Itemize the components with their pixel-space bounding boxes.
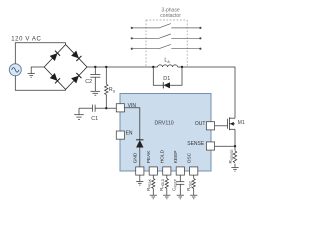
svg-text:VIN: VIN: [128, 103, 137, 109]
IC internal diode: [136, 140, 143, 167]
pin HOLD: [163, 167, 171, 175]
wire ground to C1: [79, 107, 92, 109]
bridge diode lower-right: [71, 73, 81, 83]
wire rail coil to MOSFET drain: [182, 67, 235, 118]
resistor RPEAK: [152, 175, 155, 195]
svg-text:SENSE: SENSE: [187, 141, 205, 147]
contactor pole 3: [131, 44, 202, 49]
resistor ROSC: [192, 175, 195, 195]
svg-text:D1: D1: [163, 76, 170, 82]
svg-text:C2: C2: [85, 79, 92, 85]
IC internal wire VIN to diode: [125, 108, 140, 140]
pin SENSE: [206, 142, 214, 150]
pin VIN: [116, 104, 124, 112]
node RS junction top: [105, 66, 107, 68]
contactor pole 1: [131, 24, 202, 29]
svg-text:EN: EN: [126, 130, 133, 136]
ground (RPEAK): [150, 195, 157, 199]
pin OUT: [206, 122, 214, 130]
resistor RSENSE: [233, 146, 236, 167]
AC source V1: [9, 64, 21, 76]
wire junction to VIN pin: [106, 107, 116, 109]
ground (RHOLD): [163, 195, 170, 199]
pin KEEP: [176, 167, 184, 175]
ground (bridge negative): [28, 74, 35, 78]
svg-text:120 V AC: 120 V AC: [11, 36, 41, 42]
wire main rail bridge to coil: [87, 66, 153, 68]
wire D1 loop right leg: [170, 67, 182, 85]
ground (GND pin): [136, 182, 143, 186]
resistor RS: [105, 67, 108, 108]
capacitor CKEEP: [176, 175, 184, 195]
pin PEAK: [149, 167, 157, 175]
svg-text:HOLD: HOLD: [160, 149, 166, 163]
svg-text:OSC: OSC: [187, 152, 193, 163]
node coil left: [152, 66, 154, 68]
svg-text:contactor: contactor: [160, 13, 181, 19]
wire GND pin to ground: [139, 175, 141, 181]
wire bridge diamond: [44, 45, 87, 90]
ground (C1): [74, 108, 84, 119]
svg-text:ROSC: ROSC: [186, 180, 192, 191]
node sense junction: [234, 145, 236, 147]
DRV110 IC body U1: [120, 94, 211, 172]
svg-text:RS: RS: [109, 87, 116, 93]
bridge diode upper-left: [50, 51, 60, 61]
inductor LA coil: [153, 65, 182, 67]
svg-text:GND: GND: [133, 152, 139, 163]
pin EN: [116, 131, 124, 139]
wire SENSE to source node: [215, 145, 235, 147]
pin GND: [136, 167, 144, 175]
svg-text:LA: LA: [164, 58, 170, 64]
svg-text:DRV110: DRV110: [155, 121, 174, 127]
wire OUT to gate: [215, 125, 228, 127]
contactor dashed enclosure: [146, 20, 187, 67]
wire AC source top to bridge top: [15, 43, 65, 64]
ground (C2): [91, 91, 101, 95]
node coil right: [181, 66, 183, 68]
svg-text:KEEP: KEEP: [173, 150, 179, 163]
node C2 junction: [94, 66, 96, 68]
diode D1: [163, 82, 170, 88]
capacitor C2: [90, 67, 100, 91]
svg-text:M1: M1: [238, 120, 245, 126]
node C1/RS/VIN junction: [105, 107, 107, 109]
pin OSC: [190, 167, 198, 175]
ground (CKEEP): [177, 195, 184, 199]
svg-text:RHOLD: RHOLD: [159, 178, 165, 191]
bridge diode lower-left: [50, 73, 60, 83]
svg-text:PEAK: PEAK: [146, 150, 152, 164]
svg-text:C1: C1: [91, 116, 98, 122]
wire AC source bottom to bridge bottom: [15, 76, 65, 90]
wire bridge left vertex to ground: [31, 67, 44, 73]
resistor RHOLD: [165, 175, 168, 195]
bridge diode upper-right: [71, 51, 81, 61]
ground (RSENSE): [231, 168, 238, 172]
svg-text:OUT: OUT: [195, 121, 206, 127]
svg-text:CKEEP: CKEEP: [171, 179, 177, 191]
contactor pole 2: [131, 34, 202, 39]
transistor M1: [227, 117, 235, 146]
ground (ROSC): [190, 195, 197, 199]
wire D1 loop left leg: [153, 67, 163, 85]
capacitor C1: [92, 105, 106, 112]
svg-text:RPEAK: RPEAK: [146, 178, 152, 191]
